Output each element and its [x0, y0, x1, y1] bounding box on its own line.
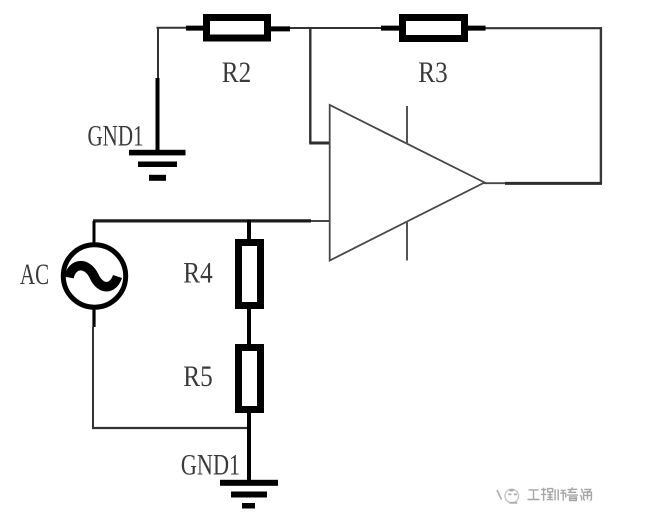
wire AC to non-inverting input [93, 219, 311, 222]
wire from GND1 corner to R2 left lead [157, 27, 187, 29]
svg-text:GND1: GND1 [88, 119, 144, 153]
svg-text:AC: AC [20, 257, 49, 291]
svg-text:R5: R5 [183, 359, 212, 393]
ground GND1 (lower) [220, 480, 278, 509]
wire R5 bottom lead to ground [247, 412, 251, 481]
watermark logo icon [497, 489, 519, 503]
glyph 看 [567, 487, 578, 500]
AC source V1 [63, 221, 125, 327]
svg-text:GND1: GND1 [181, 447, 240, 481]
ground GND1 (upper) [129, 150, 186, 181]
wire right vertical (feedback) [600, 27, 602, 183]
resistor R2 [186, 18, 290, 39]
op-amp U1 [330, 105, 485, 261]
glyph 海 [580, 489, 591, 501]
wire op-amp output [484, 182, 506, 184]
op-amp V+ power pin [406, 106, 408, 144]
wire left vertical thin segment [157, 27, 159, 78]
resistor R5 [239, 348, 261, 410]
wire output bold segment to corner [505, 182, 602, 185]
wire AC bottom thin vertical [92, 327, 94, 430]
wire junction drop to inverting input [309, 28, 311, 144]
wire R4-R5 connector [247, 308, 251, 345]
op-amp V- power pin [406, 221, 408, 261]
wire R3 to top-right corner [486, 27, 603, 29]
svg-text:R4: R4 [183, 255, 213, 289]
wire R4 top lead [247, 220, 251, 240]
wire inverting input stub [309, 142, 329, 145]
glyph 程 [541, 488, 553, 501]
glyph 工 [528, 490, 540, 500]
glyph 师 [555, 489, 566, 500]
svg-text:R2: R2 [222, 55, 251, 89]
wire non-inverting thin stub [311, 220, 330, 222]
watermark text 工程师看海 [528, 487, 592, 500]
resistor R4 [239, 243, 261, 306]
wire left vertical bold segment to ground [156, 78, 160, 151]
wire bottom horizontal to R5/ground node [92, 427, 250, 429]
resistor R3 [381, 18, 486, 39]
wire R2 to R3 [290, 27, 381, 29]
svg-text:R3: R3 [418, 55, 447, 89]
